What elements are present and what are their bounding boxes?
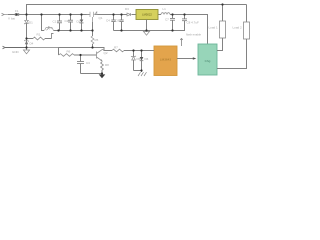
svg-text:R7: R7 bbox=[114, 45, 118, 49]
svg-text:D2: D2 bbox=[77, 20, 81, 24]
wire rail drop to charger bbox=[207, 15, 209, 45]
svg-text:R5: R5 bbox=[95, 38, 99, 42]
zener D2 bbox=[80, 15, 84, 31]
wire load1 top lead bbox=[222, 5, 224, 22]
fuse F1 bbox=[15, 13, 19, 15]
junction dots bbox=[25, 3, 223, 74]
capacitor C1 bbox=[57, 15, 62, 31]
svg-text:Q1: Q1 bbox=[99, 16, 103, 20]
GND input terminal bbox=[3, 46, 27, 49]
diode D6 bbox=[140, 51, 144, 71]
wire rail to box bbox=[132, 14, 137, 16]
capacitor C3 bbox=[77, 55, 84, 74]
IC U3 charger bbox=[198, 44, 217, 75]
wire box to L1 bbox=[158, 14, 161, 16]
ground symbol left bbox=[23, 48, 29, 54]
U1 ground pin bbox=[146, 20, 148, 31]
svg-text:Q3: Q3 bbox=[48, 26, 52, 30]
IC U1 boost driver bbox=[136, 10, 158, 20]
wire mid rail bbox=[58, 30, 93, 32]
svg-text:L1: L1 bbox=[163, 7, 167, 11]
load1 bottom wire bbox=[217, 38, 223, 51]
load 1 resistor box bbox=[220, 21, 226, 38]
svg-text:D6: D6 bbox=[145, 57, 149, 61]
svg-text:LM3643: LM3643 bbox=[160, 57, 171, 61]
svg-text:D3: D3 bbox=[125, 7, 129, 11]
U2 input wire bbox=[142, 50, 155, 52]
svg-text:flash enable: flash enable bbox=[186, 33, 202, 37]
svg-text:C4: C4 bbox=[106, 19, 110, 23]
capacitor C8 bbox=[182, 15, 187, 21]
wire Q1 gate down bbox=[92, 22, 94, 31]
ground symbol middle dark bbox=[99, 74, 106, 79]
diode D3 series bbox=[127, 13, 131, 16]
ground symbol rail bbox=[143, 31, 149, 36]
load2 bottom wire bbox=[217, 39, 247, 69]
svg-text:C1: C1 bbox=[53, 20, 57, 24]
svg-text:D1: D1 bbox=[29, 20, 33, 24]
wire L1 to corner bbox=[170, 14, 208, 16]
IC U2 flash LED driver bbox=[154, 46, 177, 76]
U2 enable stub bbox=[180, 39, 182, 47]
wire load2 top lead bbox=[246, 5, 248, 23]
svg-text:R8: R8 bbox=[105, 63, 109, 67]
resistor R5 vertical bbox=[91, 31, 94, 48]
capacitor C6 bbox=[119, 15, 123, 31]
load 2 resistor box bbox=[244, 22, 250, 39]
resistor R8 bbox=[101, 62, 104, 74]
chassis ground bbox=[138, 72, 147, 76]
wire main rail right of Q1 bbox=[95, 14, 127, 16]
svg-text:Q2: Q2 bbox=[104, 51, 108, 55]
wire C3 to ground bbox=[81, 73, 103, 75]
svg-text:D4: D4 bbox=[30, 41, 34, 45]
inductor L1 bbox=[161, 13, 170, 15]
wire left column bbox=[26, 30, 28, 48]
svg-text:Chg: Chg bbox=[205, 59, 211, 63]
U2 to charger arrow wire bbox=[177, 57, 196, 59]
svg-text:Load 2: Load 2 bbox=[233, 25, 243, 29]
zener D5 clamp bbox=[131, 51, 136, 71]
capacitor C2 bbox=[68, 15, 73, 31]
svg-text:C6: C6 bbox=[116, 19, 120, 23]
resistor R7 bbox=[112, 49, 154, 52]
svg-text:V bat: V bat bbox=[8, 16, 15, 20]
svg-text:C3: C3 bbox=[86, 61, 90, 65]
mid rail drop bbox=[42, 15, 45, 31]
wire main rail bbox=[8, 14, 90, 16]
diode D3 mid rail bbox=[45, 27, 59, 39]
resistor R6 bbox=[59, 48, 81, 57]
svg-text:LM5022: LM5022 bbox=[142, 13, 152, 17]
zener D4 bbox=[24, 40, 28, 44]
input terminal Vbat bbox=[2, 13, 9, 16]
svg-text:Load 1: Load 1 bbox=[209, 25, 219, 29]
svg-text:GND: GND bbox=[12, 50, 20, 54]
wire zener to ground node bbox=[134, 71, 142, 73]
wire ground rail bbox=[114, 21, 185, 31]
transistor Q1 pass FET bbox=[87, 12, 98, 22]
svg-text:C2: C2 bbox=[65, 19, 69, 23]
svg-text:D5: D5 bbox=[137, 57, 141, 61]
transistor Q2 bbox=[81, 49, 105, 62]
zener D1 bbox=[24, 15, 28, 31]
resistor R1 bbox=[27, 37, 52, 40]
svg-text:R6: R6 bbox=[67, 49, 71, 53]
svg-text:R1: R1 bbox=[37, 33, 41, 37]
svg-text:C8 4.7uF: C8 4.7uF bbox=[187, 21, 200, 25]
svg-text:F1: F1 bbox=[15, 9, 19, 13]
svg-text:C7: C7 bbox=[165, 18, 169, 22]
wire top rail bbox=[27, 5, 247, 15]
wire collector node run bbox=[27, 47, 59, 49]
capacitor C4 bbox=[111, 15, 115, 31]
capacitor C7 bbox=[170, 15, 175, 31]
labels bbox=[8, 7, 242, 67]
